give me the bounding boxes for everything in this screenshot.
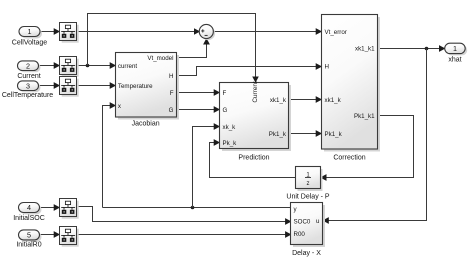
svg-text:current: current [118, 63, 138, 70]
svg-text:xk1_k: xk1_k [270, 97, 287, 104]
wire Unit Delay - P to Prediction Pk_k [210, 143, 296, 178]
svg-text:xk1_k1: xk1_k1 [355, 46, 375, 53]
wire CellVoltage to conversion block 1 [40, 31, 59, 33]
inport 2 Current [17, 61, 40, 80]
svg-text:G: G [169, 107, 174, 114]
junction current branch [86, 64, 90, 68]
wire state feedback to Jacobian x [103, 106, 115, 208]
wire Delay - X y feedback line [103, 207, 291, 209]
wire xhat feedback to Delay - X u [324, 49, 427, 221]
svg-text:Prediction: Prediction [238, 155, 269, 162]
subsystem Delay - X [291, 203, 326, 258]
wire conversion 2 to Jacobian current [77, 65, 115, 67]
inport 5 InitialR0 [16, 230, 41, 248]
svg-text:Unit Delay - P: Unit Delay - P [286, 194, 330, 201]
svg-text:F: F [223, 90, 227, 97]
svg-text:Vt_error: Vt_error [325, 29, 347, 36]
conversion block 4 [60, 199, 79, 219]
inport 3 CellTemperature [2, 81, 53, 99]
svg-text:5: 5 [27, 231, 31, 240]
svg-text:InitialSOC: InitialSOC [13, 215, 45, 222]
junction xhat feedback [425, 47, 429, 51]
junction y feedback [191, 206, 195, 210]
svg-text:CellTemperature: CellTemperature [2, 92, 53, 99]
wire Jacobian G to Prediction G [177, 109, 219, 111]
svg-text:2: 2 [26, 61, 30, 70]
svg-text:Delay - X: Delay - X [292, 250, 321, 257]
svg-text:H: H [325, 64, 329, 71]
svg-text:xk_k: xk_k [223, 124, 237, 131]
wire Correction Pk1_k1 to Unit Delay - P [321, 116, 413, 178]
inport 1 CellVoltage [12, 27, 48, 47]
wire conversion 3 to Jacobian Temperature [77, 85, 115, 87]
svg-text:Vt_model: Vt_model [147, 55, 173, 62]
wire Jacobian H to Correction H [177, 67, 321, 76]
conversion block 2 [60, 57, 79, 77]
svg-text:Temperature: Temperature [118, 83, 153, 90]
wire y feedback to Prediction xk_k [193, 127, 219, 208]
svg-text:R00: R00 [294, 231, 306, 238]
wire sum to Correction Vt_error [213, 31, 321, 33]
wire current branch to Prediction Current (top) [88, 14, 256, 82]
outport 1 xhat [445, 43, 468, 63]
conversion block 5 [60, 227, 79, 247]
subsystem Prediction [220, 81, 292, 162]
svg-text:z: z [307, 181, 310, 187]
wire conversion 1 to sum [77, 31, 200, 33]
svg-text:Correction: Correction [333, 155, 365, 162]
svg-text:xhat: xhat [448, 57, 461, 64]
wire Prediction xk1_k to Correction xk1_k [289, 99, 321, 101]
wire conversion 4 to Delay - X SOC0 [77, 207, 291, 222]
svg-text:Current: Current [252, 81, 259, 103]
svg-text:Pk_k: Pk_k [223, 140, 238, 147]
svg-text:3: 3 [26, 81, 30, 90]
subsystem Correction [322, 15, 381, 162]
wire Jacobian Vt_model to sum [177, 39, 207, 57]
wire Current inport to conversion block 2 [39, 65, 59, 67]
svg-text:InitialR0: InitialR0 [16, 241, 41, 248]
wire Prediction Pk1_k to Correction Pk1_k [289, 133, 321, 135]
conversion block 3 [60, 77, 79, 97]
svg-text:Pk1_k1: Pk1_k1 [354, 113, 375, 120]
svg-text:H: H [169, 73, 173, 80]
wire InitialR0 to conversion block 5 [40, 234, 59, 236]
wire InitialSOC to conversion block 4 [40, 207, 59, 209]
svg-text:Current: Current [17, 73, 40, 80]
inport 4 InitialSOC [13, 203, 45, 223]
svg-text:G: G [223, 107, 228, 114]
wire conversion 5 to Delay - X R00 [77, 234, 291, 236]
svg-text:1: 1 [453, 44, 457, 53]
svg-text:1: 1 [28, 27, 32, 36]
svg-text:xk1_k: xk1_k [325, 97, 342, 104]
svg-text:Jacobian: Jacobian [132, 120, 160, 127]
svg-text:u: u [316, 218, 320, 225]
svg-text:CellVoltage: CellVoltage [12, 40, 48, 47]
wire Correction xk1_k1 to outport xhat [378, 48, 445, 50]
svg-text:F: F [170, 90, 174, 97]
wire Jacobian F to Prediction F [177, 92, 219, 94]
sum junction [199, 24, 215, 40]
svg-text:Pk1_k: Pk1_k [325, 131, 343, 138]
subsystem Jacobian [116, 53, 180, 128]
unit delay block Unit Delay - P [286, 167, 330, 201]
conversion block 1 [60, 23, 79, 43]
wire CellTemperature to conversion block 3 [39, 85, 59, 87]
svg-text:4: 4 [27, 203, 31, 212]
svg-text:Pk1_k: Pk1_k [269, 131, 287, 138]
svg-text:SOC0: SOC0 [294, 218, 311, 225]
